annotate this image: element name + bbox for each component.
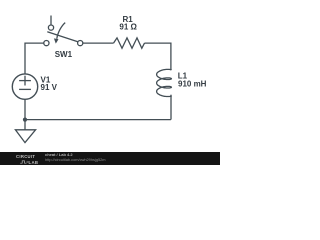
wire: stub above switch top throw: [50, 16, 52, 26]
svg-text:910 mH: 910 mH: [178, 80, 207, 89]
ground: [15, 130, 35, 143]
inductor L1: [157, 69, 172, 96]
svg-text:91 V: 91 V: [41, 83, 58, 92]
labels: [41, 15, 207, 92]
wire: V1 bottom to ground: [24, 99, 26, 130]
watermark text line 2: [45, 158, 106, 161]
svg-text:SW1: SW1: [55, 50, 73, 59]
wire: bottom rail: [25, 119, 171, 121]
junction node: [23, 118, 27, 122]
voltage source V1: [12, 74, 37, 99]
watermark text line 1: [45, 153, 73, 156]
switch SW1 terminal circles: [44, 25, 83, 46]
switch SW1 blade: [47, 32, 78, 42]
wire: R1 to top right corner down to L1: [145, 43, 171, 70]
resistor R1: [114, 38, 145, 48]
switch SW1 arrowhead: [54, 38, 59, 43]
wire: left rail from switch left terminal to V1 top: [25, 43, 44, 74]
CircuitLab logo: [16, 155, 35, 159]
wire: top rail right of switch to R1: [83, 42, 114, 44]
svg-text:91 Ω: 91 Ω: [119, 23, 137, 32]
wire: L1 bottom to bottom rail: [170, 95, 172, 120]
switch SW1 toggle arrow: [57, 23, 65, 39]
bottom watermark bar: [0, 152, 220, 165]
